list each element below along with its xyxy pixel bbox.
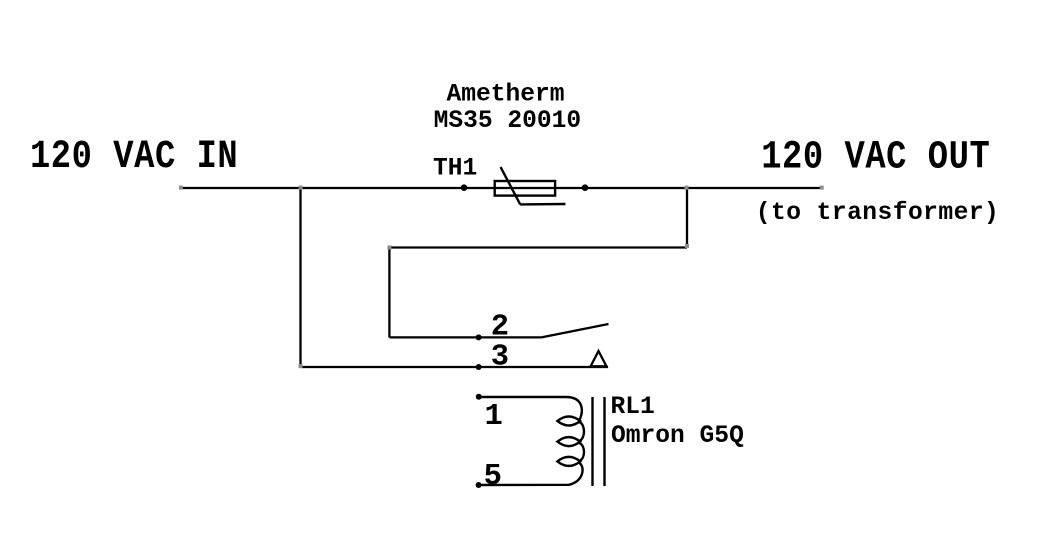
svg-text:120 VAC OUT: 120 VAC OUT xyxy=(761,135,990,180)
svg-text:RL1: RL1 xyxy=(611,394,655,421)
svg-text:120 VAC IN: 120 VAC IN xyxy=(30,135,238,180)
svg-text:2: 2 xyxy=(491,311,509,345)
svg-text:3: 3 xyxy=(491,341,509,375)
svg-text:5: 5 xyxy=(484,460,502,494)
svg-text:1: 1 xyxy=(485,400,503,434)
svg-text:TH1: TH1 xyxy=(433,156,477,183)
svg-text:Ametherm: Ametherm xyxy=(447,82,565,109)
svg-text:Omron G5Q: Omron G5Q xyxy=(611,423,744,450)
svg-text:MS35 20010: MS35 20010 xyxy=(434,108,582,135)
svg-text:(to transformer): (to transformer) xyxy=(756,200,999,227)
